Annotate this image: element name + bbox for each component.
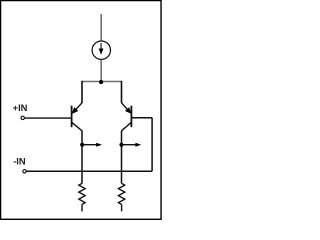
- node: Q1 collector output junction dot: [80, 143, 84, 147]
- wire: right vertical from Q2 base down to -IN line: [151, 118, 153, 172]
- wire: R2 bottom lead: [121, 204, 123, 211]
- svg-text:-IN: -IN: [13, 156, 26, 167]
- wire: Q2 base to right vertical: [131, 117, 152, 119]
- current source I1 (tail current, arrow pointing down): [92, 41, 110, 59]
- wire: top supply lead into current source: [100, 14, 102, 41]
- node: tail junction dot: [99, 80, 103, 84]
- transistor Q2 (right PNP, mirrored, emitter arrow into base bar): [122, 103, 132, 131]
- wire: Q2 emitter drop from rail: [121, 81, 123, 103]
- wire: Q1 emitter drop from rail: [81, 81, 83, 103]
- wire: -IN line across to Q2 base vertical: [27, 170, 153, 172]
- terminal -IN (open circle): [23, 170, 26, 173]
- arrow: output current tap from Q1 collector: [82, 143, 102, 147]
- arrow: output current tap from Q2 collector: [122, 143, 142, 147]
- wire: Q2 collector down to R2: [121, 131, 123, 184]
- terminal +IN (open circle): [21, 116, 24, 119]
- transistor Q1 (left PNP, emitter arrow into base bar): [72, 103, 82, 131]
- resistor R1 (left load): [79, 183, 85, 204]
- wire: +IN to Q1 base: [25, 117, 72, 119]
- wire: current source output to tail node: [100, 60, 102, 82]
- wire: emitter rail: [82, 81, 122, 83]
- node: Q2 collector output junction dot: [119, 143, 123, 147]
- wire: R1 bottom lead: [81, 204, 83, 211]
- wire: Q1 collector down to R1: [81, 131, 83, 184]
- svg-text:+IN: +IN: [13, 102, 28, 113]
- resistor R2 (right load): [118, 183, 124, 204]
